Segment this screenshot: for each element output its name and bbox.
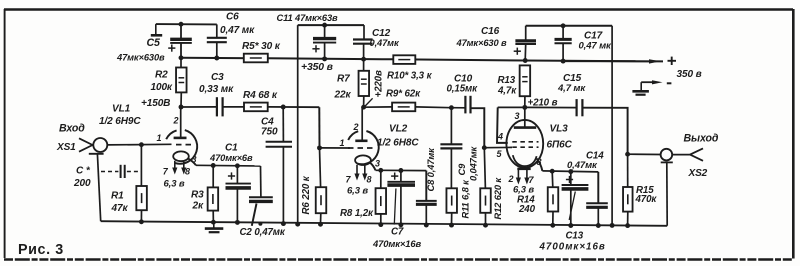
resistor R4: [244, 103, 268, 112]
capacitor C6: [216, 24, 218, 37]
svg-text:4,7 мк: 4,7 мк: [557, 83, 586, 94]
svg-text:8: 8: [367, 175, 372, 185]
capacitor C5 electrolytic: [180, 24, 182, 38]
wire screen feed: [497, 107, 508, 142]
svg-text:4: 4: [497, 132, 503, 142]
wire XS2 to fork: [672, 154, 690, 156]
heater pins VL2: [356, 165, 358, 177]
tube VL3 cathode bar: [517, 168, 530, 170]
capacitor C* plates: [120, 165, 122, 178]
svg-text:+220в: +220в: [374, 70, 385, 97]
label +220В rotated with arrow: [365, 98, 372, 106]
resistor R5* 30к: [244, 54, 268, 63]
node C11 top: [322, 23, 327, 28]
node C6 +350 rail: [214, 56, 219, 61]
svg-text:С11 47мк×63в: С11 47мк×63в: [277, 13, 339, 23]
wire XS1 sleeve to ground: [97, 154, 100, 221]
svg-text:1: 1: [340, 138, 345, 148]
svg-text:0,33 мк: 0,33 мк: [199, 84, 234, 95]
capacitor C17: [562, 26, 564, 40]
capacitor C14: [597, 172, 599, 203]
resistor R14: [551, 171, 554, 187]
node C7 ground: [398, 222, 403, 227]
svg-text:R10* 3,3 к: R10* 3,3 к: [387, 71, 433, 82]
tube VL1 cathode loop: [173, 151, 189, 161]
resistor R3: [212, 166, 214, 188]
node C8 ground: [424, 223, 429, 228]
svg-text:100к: 100к: [151, 82, 173, 93]
node ground tie stage3: [610, 223, 615, 228]
svg-text:С16: С16: [481, 26, 500, 37]
svg-text:+350 в: +350 в: [301, 62, 333, 73]
svg-text:2к: 2к: [192, 201, 204, 212]
capacitor C9: [450, 108, 452, 145]
svg-text:VL1: VL1: [112, 104, 131, 115]
border frame left: [4, 9, 6, 258]
wire XS1 tip to VL1 grid: [107, 143, 171, 146]
heater pins VL1: [174, 161, 176, 171]
svg-text:8: 8: [537, 157, 542, 167]
svg-text:6П6С: 6П6С: [547, 140, 573, 151]
wire +350V supply rail: [181, 58, 663, 62]
svg-text:47к: 47к: [111, 203, 129, 214]
node VL3 grid: [482, 145, 487, 150]
wire ground tie stage2 vertical: [297, 25, 299, 224]
svg-text:R8 1,2к: R8 1,2к: [340, 208, 374, 219]
svg-text:R6 220 к: R6 220 к: [301, 175, 312, 214]
node R3 top: [211, 163, 216, 168]
svg-text:Выход: Выход: [684, 133, 719, 145]
svg-text:Рис. 3: Рис. 3: [18, 242, 64, 258]
svg-text:С12: С12: [372, 28, 391, 39]
node C4 ground: [281, 221, 286, 226]
wire grid feed corner stage2: [318, 107, 320, 148]
tube VL2 cathode loop: [355, 155, 371, 165]
node +150V: [179, 105, 184, 110]
svg-text:6,3 в: 6,3 в: [164, 179, 185, 190]
capacitor C16 electrolytic: [525, 26, 527, 40]
svg-text:470к: 470к: [635, 194, 658, 205]
svg-text:R1: R1: [111, 191, 124, 202]
wire ground tie stage3 vertical: [611, 26, 613, 226]
svg-text:С6: С6: [226, 12, 239, 23]
svg-text:С1: С1: [225, 143, 238, 154]
node C5 +350 rail: [179, 55, 184, 60]
wire VL1 cathode out: [188, 159, 196, 166]
capacitor C12: [363, 25, 365, 39]
wire ground bus bottom: [101, 221, 668, 226]
svg-text:0,47 мк: 0,47 мк: [579, 41, 613, 52]
resistor R15: [627, 154, 629, 187]
node R11 ground: [449, 223, 454, 228]
svg-text:Вход: Вход: [59, 123, 85, 135]
wire VL1 cathode rail: [196, 164, 261, 167]
svg-text:R4 68 к: R4 68 к: [243, 90, 278, 101]
node R1 ground: [139, 219, 144, 224]
wire VL3 grid lead pin5: [484, 146, 512, 148]
ground symbol stage1 rail left end: [155, 24, 157, 35]
label + (plus terminal): [668, 60, 677, 62]
wire stage2 top ground rail: [298, 24, 364, 26]
heater pins VL3: [517, 169, 519, 181]
node C12 bottom / R7 top: [361, 57, 366, 62]
svg-text:1: 1: [157, 133, 162, 143]
resistor R12: [484, 148, 485, 189]
svg-text:С3: С3: [211, 72, 224, 83]
svg-text:350 в: 350 в: [677, 69, 702, 80]
svg-text:2: 2: [353, 122, 359, 132]
svg-text:R2: R2: [155, 70, 168, 81]
connector XS2 plug fork: [690, 148, 703, 154]
wire +210 node to screen corner: [498, 106, 525, 108]
tube VL2 anode: [361, 107, 363, 140]
wire VL2 cathode out: [370, 163, 376, 171]
resistor R13: [520, 65, 531, 96]
node C13 top: [568, 169, 573, 174]
capacitor C4: [282, 107, 284, 142]
node VL2 grid / R6 top: [317, 145, 322, 150]
node C7 top: [398, 168, 403, 173]
svg-text:0,47 мк: 0,47 мк: [220, 25, 255, 36]
node C5 top rail: [179, 22, 184, 27]
svg-text:R3: R3: [191, 190, 204, 201]
ground symbol below R3: [213, 223, 215, 228]
tube VL1 anode: [180, 107, 182, 137]
connector XS1 sleeve contact: [89, 153, 104, 155]
connector XS2 jack circle: [661, 149, 673, 161]
wire VL2 grid lead: [320, 147, 351, 149]
svg-text:0,15мк: 0,15мк: [447, 84, 479, 95]
svg-text:2: 2: [508, 174, 514, 184]
resistor R7: [363, 59, 365, 71]
svg-text:С *: С *: [76, 166, 91, 177]
capacitor C2: [260, 166, 262, 197]
node R15 ground: [625, 223, 630, 228]
svg-text:С9: С9: [457, 163, 467, 176]
capacitor C10: [451, 107, 465, 109]
resistor R11: [446, 188, 457, 213]
node R14 top: [550, 169, 555, 174]
svg-text:С13: С13: [566, 231, 584, 242]
op tube VL1 envelope: [166, 130, 176, 139]
node C9/C10 junction: [449, 105, 454, 110]
resistor R9* 62к: [364, 106, 393, 108]
wire stage1 top ground rail: [156, 23, 217, 25]
tube VL3 anode: [524, 107, 526, 127]
resistor R1: [140, 145, 142, 186]
svg-text:R13: R13: [498, 75, 516, 86]
node VL1 grid / R1 top: [139, 142, 144, 147]
resistor R2: [180, 58, 182, 68]
node C1 top: [235, 163, 240, 168]
border frame top: [4, 8, 793, 11]
svg-text:0,47мк: 0,47мк: [370, 38, 400, 48]
ground symbol at minus terminal: [640, 82, 642, 90]
svg-text:22к: 22к: [334, 90, 352, 101]
node C11 bottom: [322, 56, 327, 61]
capacitor C8: [425, 171, 427, 201]
node C1 ground: [235, 220, 240, 225]
wire output line: [628, 153, 661, 155]
svg-text:470мк×16в: 470мк×16в: [372, 238, 421, 249]
tube VL3 grids (dashed): [512, 141, 538, 143]
svg-text:200: 200: [73, 178, 91, 189]
svg-text:С7: С7: [391, 227, 404, 238]
node +210V: [522, 105, 527, 110]
connector XS2 sleeve contact: [661, 161, 673, 163]
svg-text:3: 3: [515, 111, 520, 121]
capacitor C15: [525, 106, 577, 108]
svg-text:XS2: XS2: [688, 168, 708, 179]
tube VL2 grid (dashed): [348, 147, 377, 149]
svg-text:4,7к: 4,7к: [497, 86, 517, 97]
border frame bottom (dashed): [4, 258, 793, 260]
node C4 tap: [281, 105, 286, 110]
terminal +350V arrow: [563, 60, 651, 62]
node C17 top: [561, 23, 566, 28]
wire C15 to output node: [582, 108, 627, 155]
svg-text:С8 0,47мк: С8 0,47мк: [426, 147, 436, 192]
node C17 bottom: [561, 59, 566, 64]
svg-text:R12 620 к: R12 620 к: [493, 177, 503, 220]
svg-text:R5* 30 к: R5* 30 к: [242, 41, 281, 52]
node ground tie stage2: [295, 222, 300, 227]
node R14 ground: [550, 223, 555, 228]
svg-text:240: 240: [518, 204, 536, 215]
svg-text:0,047мк: 0,047мк: [469, 145, 479, 181]
wire VL2 cathode rail: [376, 169, 427, 171]
resistor R6: [320, 148, 321, 187]
svg-text:R9* 62к: R9* 62к: [386, 89, 421, 100]
svg-text:3: 3: [192, 155, 197, 165]
node C14 ground: [596, 223, 601, 228]
capacitor C13 electrolytic: [570, 172, 572, 185]
svg-text:8: 8: [185, 167, 190, 177]
connector XS1 plug fork: [79, 138, 93, 145]
tube VL3 envelope: [506, 120, 543, 168]
resistor R10* 3,3к on rail: [393, 55, 415, 64]
wire R4 to grid node: [268, 106, 320, 108]
capacitor C3: [216, 97, 218, 116]
resistor R8: [380, 170, 382, 188]
svg-text:750: 750: [261, 127, 278, 138]
terminal -350V arrow: [641, 81, 653, 83]
svg-text:1/2 6Н8С: 1/2 6Н8С: [377, 138, 419, 149]
svg-text:47мк×630в: 47мк×630в: [116, 53, 165, 63]
node output / R15 top: [625, 152, 630, 157]
wire stage3 top ground rail: [526, 25, 612, 27]
wire XS2 sleeve to ground: [666, 162, 668, 225]
svg-text:470мк×6в: 470мк×6в: [209, 153, 253, 163]
node R6 ground: [318, 222, 323, 227]
wire VL3 cathode out pin8: [537, 159, 543, 171]
tube VL1 grid (dashed): [176, 144, 193, 146]
node +220V: [361, 105, 366, 110]
capacitor C7 electrolytic: [400, 171, 402, 182]
node R3 ground: [211, 220, 216, 225]
wire VL3 cathode rail: [542, 171, 598, 172]
node R8 ground: [378, 222, 383, 227]
svg-text:+150В: +150В: [141, 98, 170, 109]
node R8 top: [378, 168, 383, 173]
svg-text:6,3 в: 6,3 в: [347, 186, 368, 197]
svg-text:XS1: XS1: [56, 142, 76, 153]
capacitor C1 electrolytic: [236, 166, 238, 184]
node C2 ground: [258, 222, 262, 226]
svg-text:0,47мк: 0,47мк: [567, 160, 598, 171]
node R12 ground: [483, 223, 488, 228]
wire +150V plate line: [181, 106, 217, 108]
svg-text:R7: R7: [337, 74, 350, 85]
svg-text:С5: С5: [147, 37, 162, 49]
tube VL2 envelope: [348, 131, 358, 140]
capacitor C11 electrolytic: [324, 25, 326, 38]
svg-text:R11 6,8 к: R11 6,8 к: [461, 179, 471, 219]
svg-text:4700мк×16в: 4700мк×16в: [539, 242, 606, 253]
node C16 bottom / R13 top: [523, 58, 528, 63]
tube VL3 cathode cup: [513, 155, 537, 166]
svg-text:С2 0,47мк: С2 0,47мк: [240, 227, 286, 238]
border frame right: [792, 9, 795, 259]
svg-text:3: 3: [375, 159, 380, 169]
node C13 ground: [568, 223, 573, 228]
svg-text:VL2: VL2: [389, 124, 408, 135]
svg-text:2: 2: [173, 116, 179, 126]
svg-text:VL3: VL3: [550, 124, 569, 135]
svg-text:1/2 6Н9С: 1/2 6Н9С: [99, 116, 141, 127]
svg-text:47мк×630 в: 47мк×630 в: [456, 38, 508, 48]
connector XS1 jack circle: [93, 138, 107, 152]
wire C* dashed leads: [101, 171, 118, 173]
